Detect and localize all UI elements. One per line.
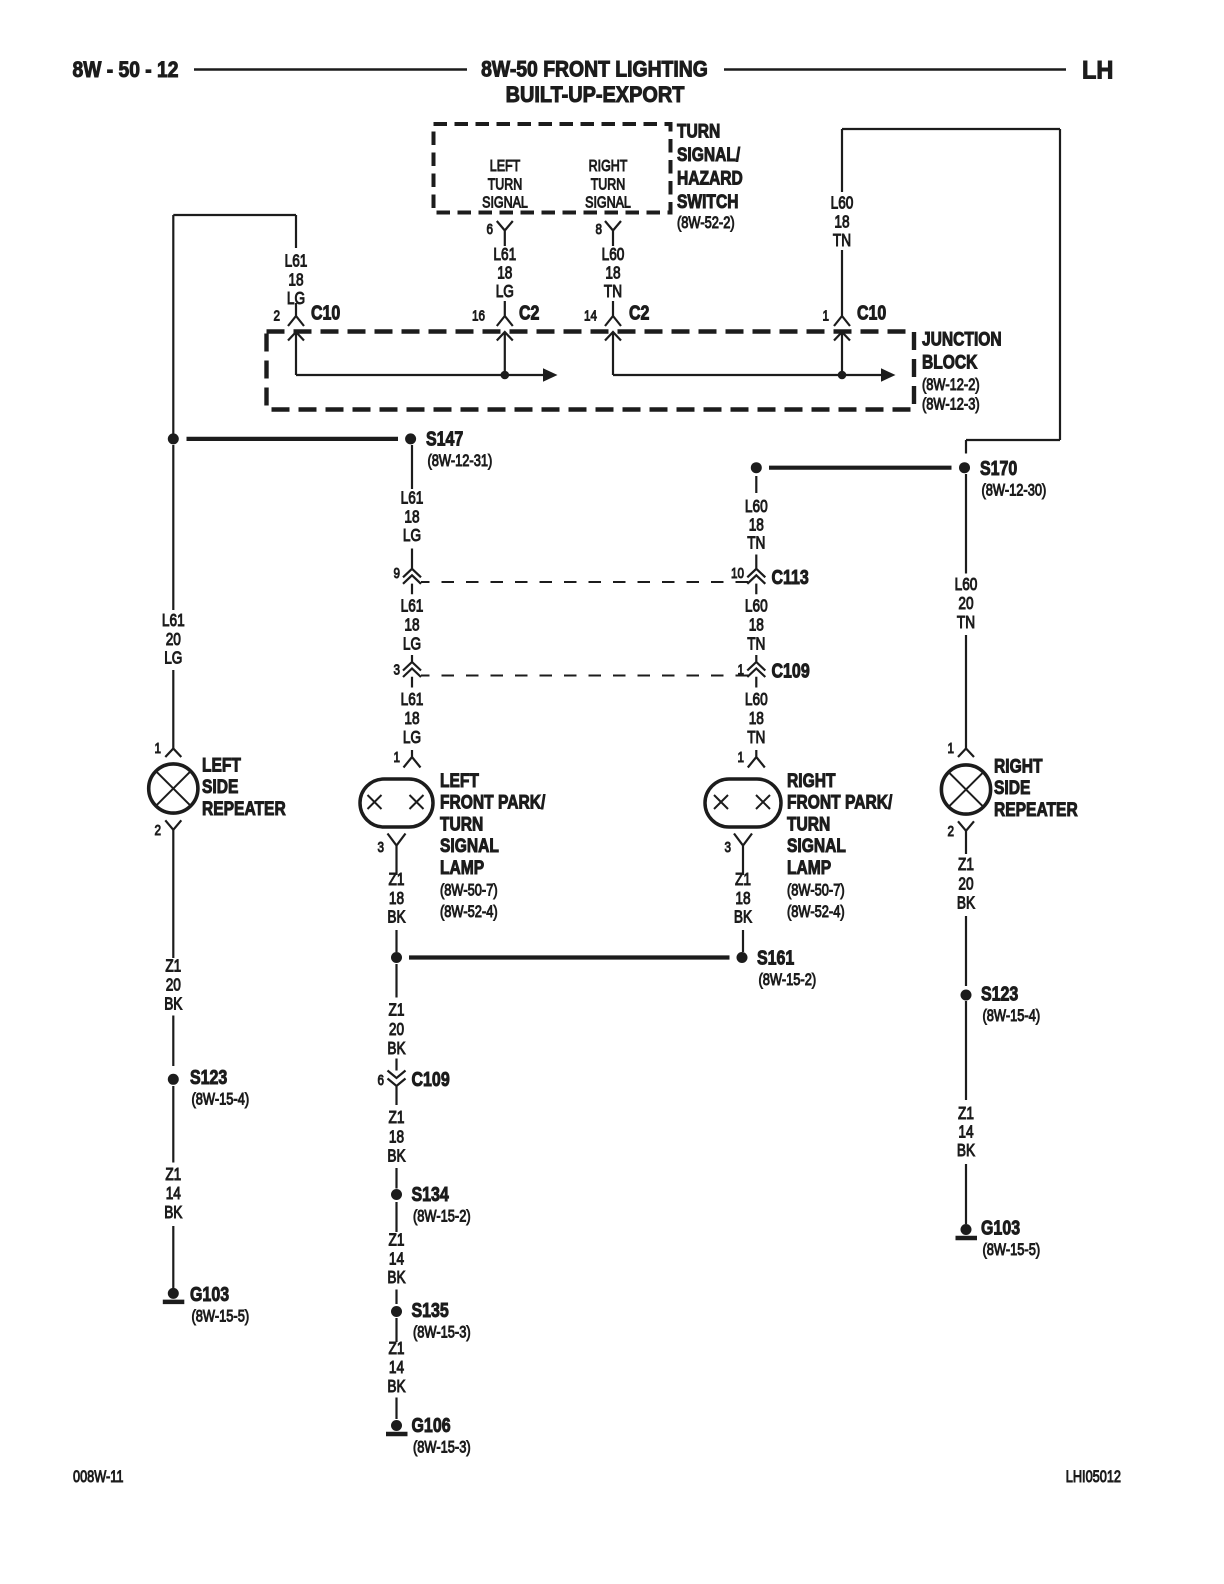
svg-text:L61: L61 xyxy=(285,252,308,271)
connector C113 right half xyxy=(747,555,765,595)
wire label Z1 20 BK colA xyxy=(164,957,183,1014)
svg-text:TN: TN xyxy=(747,635,765,654)
wire D below repeater xyxy=(965,831,967,854)
svg-text:(8W-15-3): (8W-15-3) xyxy=(413,1439,471,1457)
svg-text:18: 18 xyxy=(749,616,764,635)
svg-text:FRONT PARK/: FRONT PARK/ xyxy=(787,791,892,813)
wire B to S135 xyxy=(395,1290,397,1305)
junction block up arrow pin 2 xyxy=(288,332,304,375)
svg-text:(8W-12-31): (8W-12-31) xyxy=(428,453,493,471)
svg-text:C10: C10 xyxy=(311,301,340,324)
wire label L61 18 LG colB1 xyxy=(401,489,424,546)
svg-text:SIGNAL: SIGNAL xyxy=(585,194,631,212)
junction block bus wire right xyxy=(613,374,881,376)
svg-text:(8W-12-3): (8W-12-3) xyxy=(922,396,980,414)
svg-text:(8W-15-2): (8W-15-2) xyxy=(413,1208,471,1226)
svg-text:SIGNAL: SIGNAL xyxy=(440,834,499,856)
connector C113 left half xyxy=(403,549,421,595)
wire label L60 18 TN colC1 xyxy=(745,498,768,554)
svg-text:18: 18 xyxy=(404,508,419,527)
wire top right horizontal xyxy=(842,128,1060,130)
splice dot S147 right xyxy=(405,433,416,444)
splice dot S170 right xyxy=(959,462,970,473)
connector C109 right half xyxy=(747,655,765,688)
svg-text:Z1: Z1 xyxy=(165,957,181,976)
lamp left side repeater xyxy=(149,764,198,813)
ground G106 label xyxy=(412,1413,471,1457)
svg-text:TN: TN xyxy=(747,534,765,553)
svg-text:BLOCK: BLOCK xyxy=(922,351,978,373)
svg-text:14: 14 xyxy=(584,307,597,324)
svg-text:LG: LG xyxy=(287,290,305,309)
svg-text:18: 18 xyxy=(605,264,620,283)
wire B below S147 xyxy=(411,445,413,489)
splice S135 label xyxy=(412,1298,471,1342)
wire label Z1 14 BK colA xyxy=(164,1166,183,1223)
svg-text:1: 1 xyxy=(737,749,744,766)
wire label L60 18 TN colC2 xyxy=(745,597,768,654)
svg-text:L61: L61 xyxy=(401,691,424,710)
svg-text:2: 2 xyxy=(947,823,954,840)
splice dot S134 xyxy=(391,1189,402,1200)
wire C10 pin1 up xyxy=(841,129,843,192)
lamp right front park/turn signal xyxy=(705,779,781,827)
svg-text:REPEATER: REPEATER xyxy=(202,797,286,819)
ground G103 right xyxy=(956,1224,978,1238)
svg-text:(8W-15-3): (8W-15-3) xyxy=(413,1324,471,1342)
switch internal label LEFT TURN SIGNAL xyxy=(482,158,528,212)
svg-text:C109: C109 xyxy=(772,659,810,682)
wire label Z1 14 BK colD xyxy=(957,1105,976,1161)
svg-text:20: 20 xyxy=(958,595,973,614)
svg-text:REPEATER: REPEATER xyxy=(994,798,1078,820)
svg-text:Z1: Z1 xyxy=(389,871,405,890)
lamp label LEFT FRONT PARK/TURN SIGNAL LAMP xyxy=(440,769,545,921)
svg-text:(8W-15-5): (8W-15-5) xyxy=(192,1308,250,1326)
wire label L60 20 TN xyxy=(955,576,978,633)
wire D to G103 xyxy=(965,1164,967,1224)
svg-text:C10: C10 xyxy=(857,301,886,324)
svg-text:BK: BK xyxy=(734,908,753,927)
splice S161 label xyxy=(757,946,816,990)
junction block up arrow pin 1 xyxy=(834,332,850,375)
wire A below S123 xyxy=(172,1086,174,1163)
svg-text:BK: BK xyxy=(164,995,183,1014)
svg-text:BK: BK xyxy=(387,1040,406,1059)
wire C to S161 xyxy=(742,930,744,952)
svg-text:S123: S123 xyxy=(190,1065,227,1088)
svg-text:LAMP: LAMP xyxy=(787,856,831,878)
svg-text:TURN: TURN xyxy=(591,176,626,194)
splice dot S161 left xyxy=(391,952,402,963)
splice S170 label xyxy=(980,456,1046,500)
ground G103 right label xyxy=(981,1216,1040,1260)
svg-text:(8W-52-2): (8W-52-2) xyxy=(677,215,735,233)
svg-text:LAMP: LAMP xyxy=(440,856,484,878)
svg-text:8W-50 FRONT LIGHTING: 8W-50 FRONT LIGHTING xyxy=(481,57,708,81)
svg-text:SIDE: SIDE xyxy=(202,776,239,798)
svg-text:6: 6 xyxy=(486,221,493,238)
wire C10 pin2 up xyxy=(295,215,297,248)
svg-text:LG: LG xyxy=(164,649,182,668)
svg-text:L61: L61 xyxy=(401,489,424,508)
svg-text:L60: L60 xyxy=(745,691,768,710)
svg-text:RIGHT: RIGHT xyxy=(787,769,836,791)
svg-text:18: 18 xyxy=(749,516,764,535)
junction block splice dot left xyxy=(501,371,510,380)
ground G106 xyxy=(386,1420,408,1434)
junction block name label xyxy=(922,328,1002,414)
svg-text:20: 20 xyxy=(166,976,181,995)
wire label L61 18 LG pin2 xyxy=(285,252,308,308)
splice dot S135 xyxy=(391,1306,402,1317)
dashed connector line C113 xyxy=(421,581,748,583)
wire label Z1 18 BK colB xyxy=(387,871,406,927)
left lamp pin 1 connector xyxy=(404,750,421,768)
svg-text:(8W-15-4): (8W-15-4) xyxy=(983,1008,1041,1026)
svg-text:8: 8 xyxy=(595,221,602,238)
lamp label LEFT SIDE REPEATER xyxy=(202,754,286,819)
junction block up arrow pin 16 xyxy=(497,332,513,375)
wire D below S123 xyxy=(965,1001,967,1100)
svg-text:Z1: Z1 xyxy=(958,1105,974,1124)
right lamp pin 1 connector xyxy=(748,750,765,768)
svg-text:18: 18 xyxy=(834,213,849,232)
junction block dashed box xyxy=(267,332,915,410)
svg-text:Z1: Z1 xyxy=(389,1340,405,1359)
svg-text:(8W-15-2): (8W-15-2) xyxy=(759,972,817,990)
svg-text:18: 18 xyxy=(404,710,419,729)
svg-text:16: 16 xyxy=(472,307,485,324)
wire B to G106 xyxy=(395,1398,397,1420)
svg-text:6: 6 xyxy=(377,1072,384,1089)
svg-text:14: 14 xyxy=(958,1123,973,1142)
svg-text:18: 18 xyxy=(288,271,303,290)
svg-text:L61: L61 xyxy=(162,612,185,631)
svg-text:(8W-15-4): (8W-15-4) xyxy=(192,1091,250,1109)
junction pin 1 C10 connector xyxy=(834,250,850,326)
svg-text:SWITCH: SWITCH xyxy=(677,190,738,212)
svg-text:BK: BK xyxy=(387,1147,406,1166)
splice dot S123 right xyxy=(961,990,972,1001)
svg-text:SIGNAL: SIGNAL xyxy=(787,834,846,856)
svg-text:TN: TN xyxy=(957,614,975,633)
svg-text:(8W-50-7): (8W-50-7) xyxy=(787,882,845,900)
svg-text:RIGHT: RIGHT xyxy=(589,158,628,176)
svg-text:S147: S147 xyxy=(426,427,463,450)
svg-text:(8W-50-7): (8W-50-7) xyxy=(440,882,498,900)
svg-text:Z1: Z1 xyxy=(389,1231,405,1250)
switch name label TURN SIGNAL/HAZARD SWITCH xyxy=(677,120,743,233)
svg-text:BK: BK xyxy=(957,894,976,913)
svg-text:LHI05012: LHI05012 xyxy=(1066,1467,1121,1486)
svg-text:3: 3 xyxy=(724,839,731,856)
splice S147 label xyxy=(426,427,492,471)
wire label Z1 14 BK colB3 xyxy=(387,1231,406,1287)
switch pin 6 connector xyxy=(497,221,513,246)
ground G103 left xyxy=(163,1288,185,1302)
svg-text:18: 18 xyxy=(497,264,512,283)
wire B below S161 xyxy=(395,964,397,998)
switch internal label RIGHT TURN SIGNAL xyxy=(585,158,631,212)
wire B below S134 xyxy=(395,1202,397,1232)
svg-text:1: 1 xyxy=(822,307,829,324)
svg-text:BUILT-UP-EXPORT: BUILT-UP-EXPORT xyxy=(506,83,685,107)
header rule right xyxy=(724,68,1066,70)
wire label Z1 20 BK colD xyxy=(957,856,976,913)
svg-text:008W-11: 008W-11 xyxy=(73,1467,124,1486)
svg-text:FRONT PARK/: FRONT PARK/ xyxy=(440,791,545,813)
svg-text:LG: LG xyxy=(403,729,421,748)
svg-text:C109: C109 xyxy=(412,1067,450,1090)
wire B below S135 xyxy=(395,1318,397,1342)
wire A to S123 xyxy=(172,1016,174,1067)
svg-text:14: 14 xyxy=(166,1185,181,1204)
wire left vertical to S147 xyxy=(172,215,174,434)
svg-text:9: 9 xyxy=(393,565,400,582)
right lamp pin 3 connector xyxy=(734,834,752,876)
svg-text:L61: L61 xyxy=(401,597,424,616)
svg-text:20: 20 xyxy=(389,1020,404,1039)
wire B to S161 xyxy=(395,930,397,952)
svg-text:SIGNAL/: SIGNAL/ xyxy=(677,143,740,165)
junction block arrowhead left xyxy=(543,368,558,381)
svg-text:L61: L61 xyxy=(493,246,516,265)
header rule left xyxy=(194,68,467,70)
svg-text:BK: BK xyxy=(387,1378,406,1397)
svg-text:14: 14 xyxy=(389,1359,404,1378)
wire B to S134 xyxy=(395,1168,397,1189)
svg-text:Z1: Z1 xyxy=(958,856,974,875)
wire C below S170 dot xyxy=(755,476,757,493)
svg-text:C2: C2 xyxy=(629,301,649,324)
svg-text:S161: S161 xyxy=(757,946,794,969)
splice S170 bus xyxy=(769,466,952,470)
svg-text:3: 3 xyxy=(377,839,384,856)
svg-text:TURN: TURN xyxy=(787,813,830,835)
svg-text:SIDE: SIDE xyxy=(994,777,1031,799)
svg-text:1: 1 xyxy=(393,749,400,766)
svg-text:LEFT: LEFT xyxy=(490,158,521,176)
splice S123 left label xyxy=(190,1065,249,1109)
switch pin 8 connector xyxy=(605,221,621,246)
svg-text:LEFT: LEFT xyxy=(202,754,241,776)
wire label L60 18 TN xyxy=(602,246,625,302)
svg-text:(8W-52-4): (8W-52-4) xyxy=(787,904,845,922)
switch U1 turn signal/hazard switch dashed box xyxy=(434,124,671,213)
junction pin 16 C2 connector xyxy=(497,301,513,326)
svg-text:L60: L60 xyxy=(602,246,625,265)
wire label Z1 18 BK colC xyxy=(734,871,753,927)
svg-text:Z1: Z1 xyxy=(165,1166,181,1185)
svg-text:20: 20 xyxy=(958,875,973,894)
svg-text:18: 18 xyxy=(749,710,764,729)
svg-text:(8W-15-5): (8W-15-5) xyxy=(983,1242,1041,1260)
svg-text:18: 18 xyxy=(735,889,750,908)
wire label L61 18 LG xyxy=(493,246,516,302)
svg-text:1: 1 xyxy=(737,661,744,678)
splice dot S147 left xyxy=(168,433,179,444)
svg-text:TN: TN xyxy=(833,232,851,251)
svg-text:14: 14 xyxy=(389,1250,404,1269)
svg-text:20: 20 xyxy=(166,630,181,649)
svg-text:G106: G106 xyxy=(412,1413,451,1436)
svg-text:10: 10 xyxy=(731,565,744,582)
svg-text:18: 18 xyxy=(404,616,419,635)
svg-text:18: 18 xyxy=(389,1128,404,1147)
svg-text:C2: C2 xyxy=(519,301,539,324)
wire label L61 18 LG colB2 xyxy=(401,597,424,654)
svg-text:3: 3 xyxy=(393,661,400,678)
wire label L60 18 TN pin1 xyxy=(831,194,854,250)
connector C109 pin 6 half xyxy=(388,1059,406,1106)
junction pin 14 C2 connector xyxy=(605,301,621,326)
right repeater pin 1 connector xyxy=(958,749,974,758)
svg-text:S135: S135 xyxy=(412,1298,449,1321)
wire jog to S170 xyxy=(966,439,1060,441)
wire D to lamp xyxy=(965,635,967,749)
left lamp pin 3 connector xyxy=(388,834,406,876)
dashed connector line C109 xyxy=(421,675,748,677)
junction pin 2 C10 connector xyxy=(288,303,304,326)
svg-text:SIGNAL: SIGNAL xyxy=(482,194,528,212)
wire jog horizontal xyxy=(173,214,296,216)
svg-text:(8W-12-2): (8W-12-2) xyxy=(922,377,980,395)
svg-text:Z1: Z1 xyxy=(389,1001,405,1020)
wire A below S147 xyxy=(172,445,174,610)
connector C109 left half xyxy=(403,655,421,688)
svg-text:BK: BK xyxy=(387,908,406,927)
svg-text:1: 1 xyxy=(947,740,954,757)
svg-text:TURN: TURN xyxy=(488,176,523,194)
svg-text:RIGHT: RIGHT xyxy=(994,755,1043,777)
svg-text:S170: S170 xyxy=(980,456,1017,479)
svg-text:(8W-52-4): (8W-52-4) xyxy=(440,904,498,922)
wire down to S170 xyxy=(965,440,967,454)
splice S123 right label xyxy=(981,982,1040,1026)
left repeater pin 2 connector xyxy=(165,820,181,830)
svg-text:JUNCTION: JUNCTION xyxy=(922,328,1002,350)
lamp label RIGHT SIDE REPEATER xyxy=(994,755,1078,820)
splice S147 bus xyxy=(187,437,399,441)
svg-text:LEFT: LEFT xyxy=(440,769,479,791)
wire label Z1 20 BK colB xyxy=(387,1001,406,1058)
junction block splice dot right xyxy=(838,371,847,380)
svg-text:LG: LG xyxy=(496,283,514,302)
svg-text:18: 18 xyxy=(389,889,404,908)
wire right vertical xyxy=(1059,129,1061,440)
svg-text:C113: C113 xyxy=(772,565,809,588)
svg-text:Z1: Z1 xyxy=(735,871,751,890)
svg-text:(8W-12-30): (8W-12-30) xyxy=(982,482,1047,500)
svg-text:HAZARD: HAZARD xyxy=(677,167,743,189)
svg-text:BK: BK xyxy=(387,1269,406,1288)
svg-text:LH: LH xyxy=(1082,57,1113,85)
lamp label RIGHT FRONT PARK/TURN SIGNAL LAMP xyxy=(787,769,892,921)
splice S134 label xyxy=(412,1182,471,1226)
svg-text:L60: L60 xyxy=(745,597,768,616)
wire label L60 18 TN colC3 xyxy=(745,691,768,748)
splice dot S161 right xyxy=(737,952,748,963)
left repeater pin 1 connector xyxy=(165,749,181,758)
splice S161 bus xyxy=(409,955,730,959)
svg-text:Z1: Z1 xyxy=(389,1109,405,1128)
wire label L61 20 LG xyxy=(162,612,185,668)
svg-text:L60: L60 xyxy=(745,498,768,517)
svg-text:2: 2 xyxy=(273,307,280,324)
svg-text:BK: BK xyxy=(957,1142,976,1161)
svg-text:LG: LG xyxy=(403,527,421,546)
lamp right side repeater xyxy=(941,765,990,814)
svg-text:L60: L60 xyxy=(831,194,854,213)
wire D below S170 xyxy=(965,474,967,574)
svg-text:8W - 50 - 12: 8W - 50 - 12 xyxy=(73,58,179,82)
right repeater pin 2 connector xyxy=(958,821,974,831)
svg-text:G103: G103 xyxy=(981,1216,1020,1239)
svg-text:1: 1 xyxy=(154,740,161,757)
wire label Z1 18 BK colB2 xyxy=(387,1109,406,1166)
svg-text:L60: L60 xyxy=(955,576,978,595)
svg-text:TURN: TURN xyxy=(677,120,720,142)
wire D to S123 xyxy=(965,916,967,986)
junction block arrowhead right xyxy=(881,368,896,381)
ground G103 left label xyxy=(190,1282,249,1326)
svg-text:2: 2 xyxy=(154,822,161,839)
svg-text:S123: S123 xyxy=(981,982,1018,1005)
junction block up arrow pin 14 xyxy=(605,332,621,375)
svg-text:TURN: TURN xyxy=(440,813,483,835)
lamp left front park/turn signal xyxy=(360,779,433,827)
svg-text:S134: S134 xyxy=(412,1182,450,1205)
svg-text:TN: TN xyxy=(747,729,765,748)
wire label Z1 14 BK colB4 xyxy=(387,1340,406,1397)
wire A below repeater xyxy=(172,830,174,958)
svg-text:TN: TN xyxy=(604,283,622,302)
splice dot S123 left xyxy=(168,1074,179,1085)
splice dot S170 left xyxy=(751,462,762,473)
junction block bus wire left xyxy=(296,374,543,376)
svg-text:LG: LG xyxy=(403,635,421,654)
svg-text:BK: BK xyxy=(164,1204,183,1223)
wire label L61 18 LG colB3 xyxy=(401,691,424,748)
wire A to lamp xyxy=(172,670,174,749)
wire A to G103 xyxy=(172,1226,174,1288)
svg-text:G103: G103 xyxy=(190,1282,229,1305)
